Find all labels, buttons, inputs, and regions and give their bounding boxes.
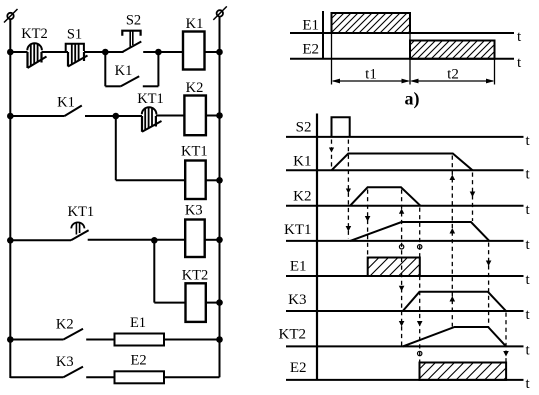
label K2 rung4	[56, 316, 74, 332]
bar E2 row (hatched)	[420, 363, 507, 380]
label t axis E1 row	[526, 272, 531, 288]
dashed link K3-off to E2	[503, 313, 509, 363]
label K1 branch	[115, 63, 133, 79]
contact KT1 (NO time-delay, rung3)	[71, 222, 185, 240]
terminal top-right	[213, 6, 227, 20]
svg-text:t: t	[526, 166, 531, 182]
wire KT2-coil end	[206, 302, 220, 304]
node rail-left rung1	[7, 49, 14, 56]
wire rung2 left	[10, 115, 64, 117]
dashed link S2-on to K1	[329, 140, 334, 170]
wire rung2 end	[206, 115, 220, 117]
axis KT1	[286, 240, 524, 242]
label t2	[447, 67, 459, 83]
label K3 row	[288, 292, 306, 308]
coil K3	[185, 220, 205, 258]
svg-text:K2: K2	[56, 316, 74, 332]
label t axis S2	[526, 133, 531, 149]
svg-text:t1: t1	[365, 67, 377, 83]
svg-text:t: t	[526, 133, 531, 149]
svg-text:K3: K3	[185, 203, 203, 219]
contact KT1 (NC time-delay, rung2)	[142, 107, 162, 131]
wire KT1-coil end	[206, 179, 220, 181]
coil KT2	[186, 283, 206, 322]
heater E2	[115, 371, 165, 383]
waveform K3	[403, 292, 506, 311]
pulse S2	[332, 117, 350, 137]
svg-text:K2: K2	[293, 188, 311, 204]
waveform K1	[332, 154, 473, 171]
label t axis KT1	[526, 237, 531, 253]
label E1 row	[290, 259, 307, 275]
label K2 row	[293, 188, 311, 204]
heater E1	[115, 334, 165, 346]
node rail-right KT2	[216, 299, 223, 306]
axis K2	[286, 205, 524, 207]
wire K1-branch bottom-left	[105, 85, 121, 87]
contact K1 (NO, rung2)	[65, 106, 143, 117]
dashed link S2-off/K1-top chain	[346, 140, 352, 239]
label E2 top	[302, 42, 319, 58]
y-tick top diagram	[322, 11, 324, 59]
svg-text:K2: K2	[186, 80, 204, 96]
waveform K2	[350, 187, 421, 206]
label S2	[126, 13, 141, 29]
label t axis E2 row	[526, 376, 531, 392]
svg-text:KT1: KT1	[181, 144, 208, 160]
label KT2 row	[279, 326, 307, 342]
extension line t1 left	[331, 33, 333, 85]
svg-text:KT2: KT2	[21, 26, 48, 42]
svg-text:KT2: KT2	[182, 268, 209, 284]
dashed link K1-off to KT1-off	[470, 173, 476, 222]
dashed link K1-fall chain	[450, 156, 456, 327]
dashed link K2-top to KT1/E1	[365, 190, 371, 258]
label KT2	[21, 26, 48, 42]
svg-text:KT1: KT1	[137, 91, 164, 107]
node rail-right KT1	[216, 177, 223, 184]
label KT1 rung3	[68, 204, 95, 220]
wire rung2 right	[156, 115, 185, 117]
node rail-right rung3	[216, 237, 223, 244]
axis S2	[286, 136, 524, 138]
node rail-left rung4	[7, 336, 14, 343]
label KT1 rung2	[137, 91, 164, 107]
svg-text:E2: E2	[131, 353, 147, 369]
label S2 row	[296, 119, 312, 135]
svg-text:t: t	[517, 55, 522, 71]
svg-text:а): а)	[405, 89, 420, 110]
wire rung3 left	[10, 239, 71, 241]
contact S1 (NC pushbutton)	[66, 44, 88, 67]
label a)	[405, 89, 420, 110]
label t axis E2	[517, 55, 522, 71]
wire rung4 left	[10, 339, 63, 341]
label K1 rung2	[57, 94, 75, 110]
label K3 coil	[185, 203, 203, 219]
dimension t1	[332, 79, 411, 84]
contact K1 (NO, seal-in branch)	[121, 76, 159, 86]
node rail-right rung2	[216, 112, 223, 119]
svg-text:K3: K3	[288, 292, 306, 308]
contact KT2 (NC time-delay)	[27, 43, 46, 68]
right power rail	[219, 17, 221, 378]
label K2 coil	[186, 80, 204, 96]
wire rung5 right	[164, 376, 220, 378]
svg-text:E2: E2	[290, 360, 307, 376]
svg-text:t: t	[526, 272, 531, 288]
left power rail	[9, 19, 11, 378]
coil K1	[183, 32, 205, 70]
wire rung1 left	[10, 51, 27, 53]
bar E2 (hatched)	[410, 41, 495, 59]
svg-text:S2: S2	[126, 13, 141, 29]
extension line middle	[409, 13, 411, 85]
y-axis bottom diagram	[316, 114, 318, 380]
svg-text:t: t	[517, 29, 522, 45]
label KT1 coil	[181, 144, 208, 160]
svg-text:t: t	[526, 307, 531, 323]
svg-text:K1: K1	[57, 94, 75, 110]
label E1	[130, 315, 146, 331]
wire rung4 right	[164, 339, 220, 341]
label K1 row	[293, 153, 311, 169]
wire rung3 end	[205, 239, 220, 241]
extension line t2 right	[494, 59, 496, 85]
node rung2	[113, 113, 120, 120]
wire rung1 c	[158, 51, 183, 53]
contact K3 (NO, rung5)	[63, 367, 114, 378]
wire KT2-branch bottom	[154, 302, 185, 304]
waveform KT2	[403, 327, 506, 346]
label K3 rung5	[56, 354, 74, 370]
svg-text:t: t	[526, 376, 531, 392]
axis E1 row	[286, 275, 524, 277]
svg-text:t: t	[526, 342, 531, 358]
contact K2 (NO, rung4)	[63, 329, 114, 340]
axis E2 (top)	[290, 58, 514, 60]
dashed link K2-off chain	[417, 208, 423, 363]
terminal top-left	[4, 9, 18, 23]
bar E1 (hatched)	[332, 13, 411, 33]
svg-text:t2: t2	[447, 67, 459, 83]
wire rung1 a	[42, 51, 69, 53]
node rail-left rung2	[7, 113, 14, 120]
label E2 row	[290, 360, 307, 376]
node rung1-right	[155, 49, 162, 56]
label t axis K1	[526, 166, 531, 182]
wire rung1 d	[205, 51, 220, 53]
svg-text:E1: E1	[130, 315, 146, 331]
coil K2	[184, 96, 206, 136]
axis E2 row	[286, 379, 524, 381]
node rail-right rung4	[216, 336, 223, 343]
svg-text:K1: K1	[115, 63, 133, 79]
wire K1-branch down-left	[104, 52, 106, 86]
label t axis K2	[526, 202, 531, 218]
svg-text:KT2: KT2	[279, 326, 307, 342]
wire KT1-branch down	[115, 116, 117, 180]
waveform KT1	[350, 222, 489, 241]
coil KT1	[185, 161, 206, 200]
svg-text:t: t	[526, 202, 531, 218]
svg-text:K3: K3	[56, 354, 74, 370]
label t axis K3	[526, 307, 531, 323]
node rung3	[151, 237, 158, 244]
contact S2 (NO pushbutton)	[122, 31, 158, 52]
label E2	[131, 353, 147, 369]
svg-text:E1: E1	[290, 259, 307, 275]
wire rung1 b	[84, 51, 124, 53]
dimension t2	[410, 79, 495, 84]
svg-text:S1: S1	[67, 27, 82, 43]
node rung1-left	[102, 49, 109, 56]
node rail-right rung1	[216, 49, 223, 56]
wire KT2-branch down	[153, 240, 155, 302]
label KT1 row	[284, 222, 312, 238]
svg-text:t: t	[526, 237, 531, 253]
axis K3	[286, 310, 524, 312]
svg-text:S2: S2	[296, 119, 312, 135]
svg-text:KT1: KT1	[284, 222, 312, 238]
bar E1 row (hatched)	[368, 258, 420, 277]
svg-text:E1: E1	[302, 18, 319, 34]
dashed link KT1-knee chain	[399, 190, 405, 346]
label S1	[67, 27, 82, 43]
node rail-left rung3	[7, 237, 14, 244]
wire rung5 left	[10, 376, 63, 378]
label t axis E1	[517, 29, 522, 45]
label E1 top	[302, 18, 319, 34]
axis KT2	[286, 345, 524, 347]
svg-text:KT1: KT1	[68, 204, 95, 220]
dashed link KT1-off to K3/KT2	[486, 243, 492, 327]
svg-text:K1: K1	[186, 16, 204, 32]
wire K1-branch up-right	[157, 52, 159, 86]
label KT2 coil	[182, 268, 209, 284]
axis E1 (top)	[290, 32, 514, 34]
wire KT1-branch bottom	[116, 179, 185, 181]
label K1 coil	[186, 16, 204, 32]
label t1	[365, 67, 377, 83]
svg-text:K1: K1	[293, 153, 311, 169]
axis K1	[286, 169, 524, 171]
label t axis KT2	[526, 342, 531, 358]
svg-text:E2: E2	[302, 42, 319, 58]
